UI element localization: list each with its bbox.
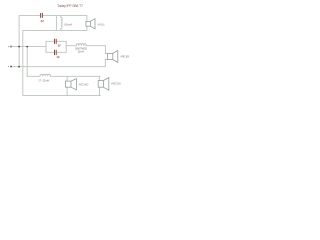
svg-text:6µ8: 6µ8 — [41, 19, 45, 23]
svg-text:MV161: MV161 — [98, 23, 106, 27]
svg-text:ARE 109: ARE 109 — [120, 54, 129, 58]
svg-text:0,6 mH: 0,6 mH — [64, 22, 72, 26]
svg-text:Today IPF 0B8 T7: Today IPF 0B8 T7 — [57, 4, 83, 8]
svg-text:7µF: 7µF — [58, 43, 62, 47]
svg-text:17 - 22mH: 17 - 22mH — [38, 79, 49, 83]
svg-text:7µF: 7µF — [56, 55, 60, 59]
svg-text:0,2 mH: 0,2 mH — [78, 49, 84, 53]
svg-text:ARZ 060: ARZ 060 — [78, 82, 88, 86]
svg-text:HRZ160: HRZ160 — [111, 82, 121, 86]
